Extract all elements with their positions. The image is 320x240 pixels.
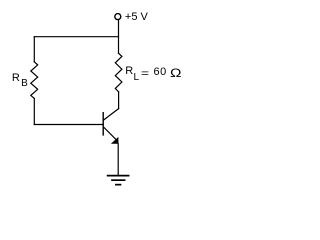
ground symbol xyxy=(108,176,129,185)
wire supply vertical (circle to RL top) xyxy=(118,20,120,53)
wire left vertical upper xyxy=(33,37,35,62)
wire top horizontal xyxy=(34,36,118,38)
transistor Q1 emitter lead xyxy=(104,127,118,141)
transistor Q1 emitter arrowhead xyxy=(111,137,119,144)
label RL = 60 ohm xyxy=(125,65,133,77)
wire emitter vertical xyxy=(117,144,119,175)
transistor Q1 collector lead xyxy=(104,109,119,120)
label +5 V xyxy=(125,11,148,23)
resistor RL xyxy=(115,53,122,92)
wire collector vertical xyxy=(118,92,120,109)
resistor RB xyxy=(31,62,38,99)
wire base horizontal xyxy=(34,124,103,126)
transistor Q1 base bar xyxy=(102,113,104,135)
wire left vertical lower xyxy=(33,98,35,124)
supply terminal circle +5V xyxy=(115,14,121,20)
label RB xyxy=(12,72,20,84)
